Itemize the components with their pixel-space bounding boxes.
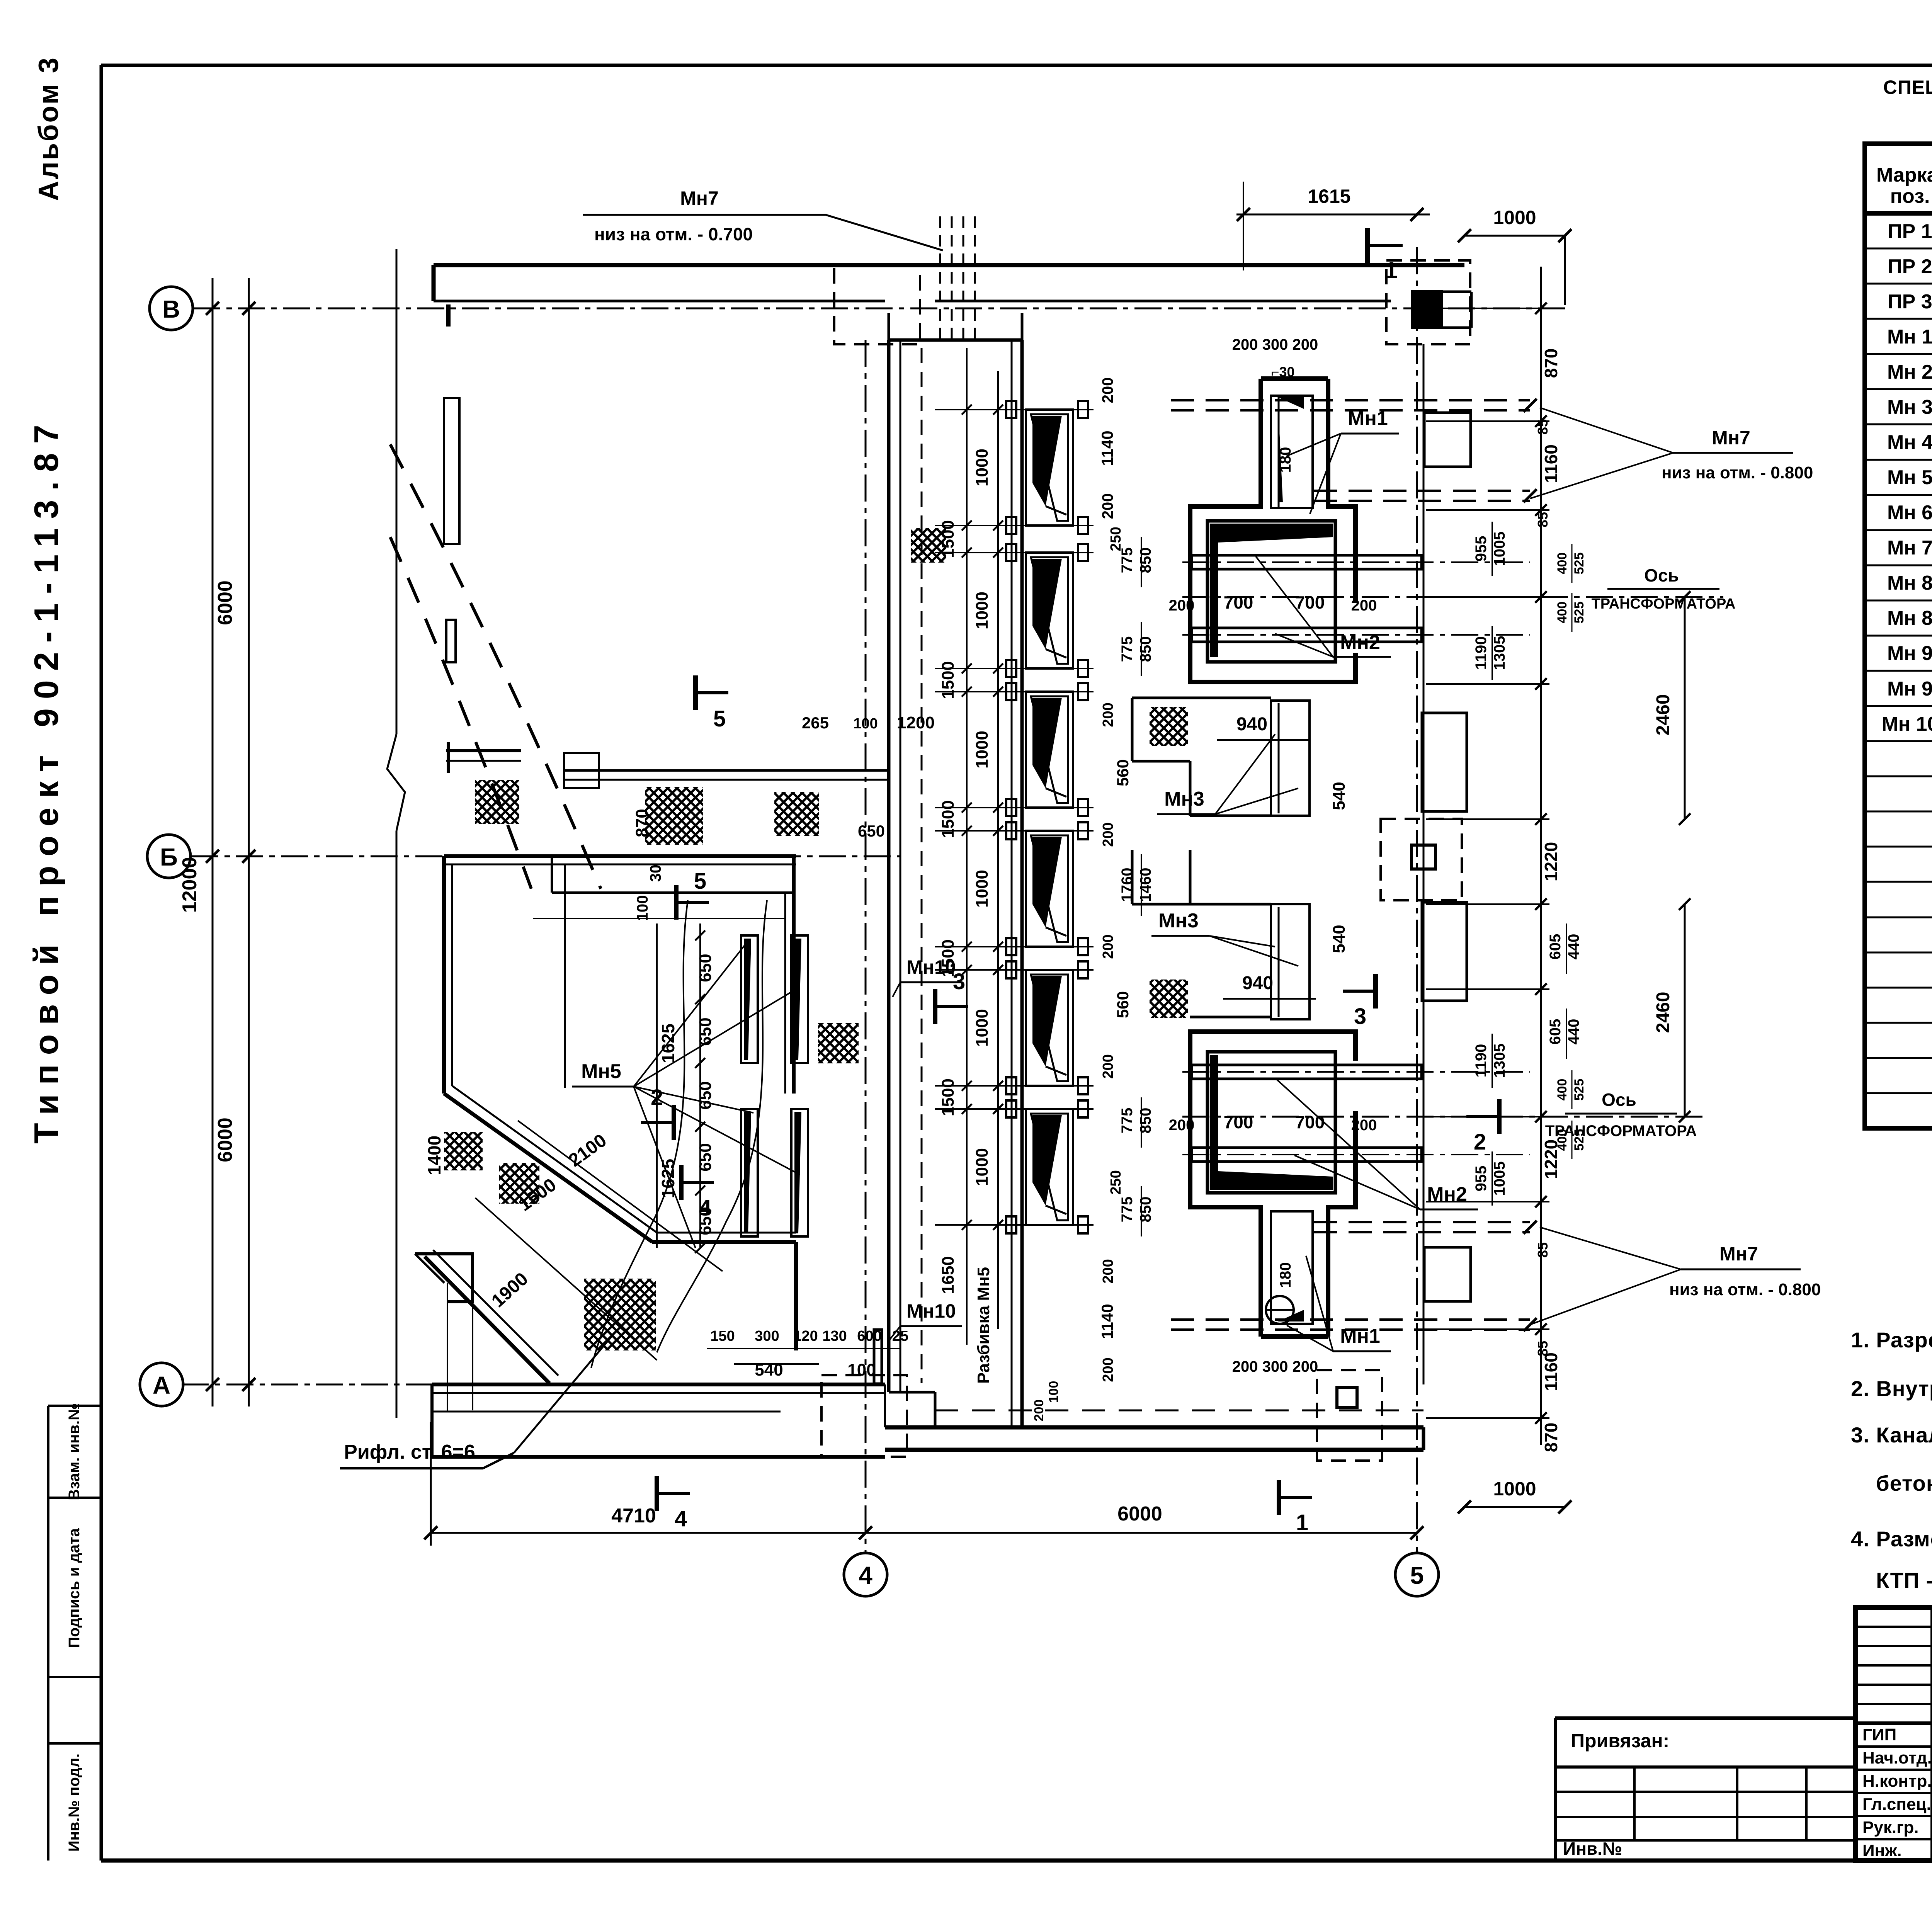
svg-text:955: 955 xyxy=(1473,536,1490,562)
svg-text:5: 5 xyxy=(1410,1561,1424,1589)
axis Б line xyxy=(191,855,900,857)
svg-text:700: 700 xyxy=(1224,1112,1253,1132)
Mn7 pipes right top xyxy=(1171,399,1530,401)
dim 1000 bottom right xyxy=(1464,1506,1565,1508)
svg-text:100: 100 xyxy=(634,895,651,921)
section 2 marks xyxy=(672,1105,676,1140)
axis 4 line xyxy=(865,340,867,1553)
svg-text:850: 850 xyxy=(1137,1197,1154,1223)
axis transformer top xyxy=(1182,596,1723,598)
svg-text:В: В xyxy=(162,295,180,323)
middle rooms xyxy=(1132,697,1271,699)
svg-text:200: 200 xyxy=(1100,702,1116,727)
dashed box middle right xyxy=(1381,819,1462,900)
svg-text:1160: 1160 xyxy=(1541,444,1561,483)
hatch squares xyxy=(475,780,519,824)
svg-text:1500: 1500 xyxy=(939,661,957,699)
svg-text:2460: 2460 xyxy=(1653,694,1673,736)
svg-text:650: 650 xyxy=(696,1143,715,1171)
svg-text:1000: 1000 xyxy=(973,1148,992,1186)
svg-text:Н.контр.: Н.контр. xyxy=(1862,1772,1932,1791)
svg-text:650: 650 xyxy=(696,1081,715,1109)
svg-text:2460: 2460 xyxy=(1653,992,1673,1033)
svg-text:700: 700 xyxy=(1295,1112,1325,1132)
svg-text:940: 940 xyxy=(1242,973,1273,993)
svg-text:1140: 1140 xyxy=(1098,1304,1116,1339)
svg-text:440: 440 xyxy=(1565,1019,1582,1045)
svg-text:6000: 6000 xyxy=(214,580,236,625)
svg-text:2: 2 xyxy=(651,1085,663,1110)
svg-text:265: 265 xyxy=(802,714,829,732)
svg-text:Мн 4: Мн 4 xyxy=(1887,431,1932,454)
svg-text:870: 870 xyxy=(1541,1423,1561,1452)
svg-text:4: 4 xyxy=(859,1561,872,1589)
svg-text:940: 940 xyxy=(1236,714,1267,735)
svg-text:Мн2: Мн2 xyxy=(1340,631,1380,654)
svg-text:700: 700 xyxy=(1224,592,1253,612)
dashed opening top right xyxy=(1386,260,1470,344)
svg-text:1615: 1615 xyxy=(1308,185,1350,207)
transformer bay bottom xyxy=(1190,1032,1355,1337)
svg-text:120: 120 xyxy=(793,1328,818,1344)
svg-text:низ на отм. - 0.800: низ на отм. - 0.800 xyxy=(1662,463,1813,482)
svg-text:200: 200 xyxy=(1032,1400,1046,1422)
svg-text:1500: 1500 xyxy=(939,800,957,838)
left room dims 650 xyxy=(699,923,701,1248)
svg-text:130: 130 xyxy=(822,1328,847,1344)
svg-text:540: 540 xyxy=(1330,782,1349,810)
wall piece near corridor xyxy=(564,753,599,788)
svg-text:Мн 9: Мн 9 xyxy=(1887,678,1932,700)
svg-text:1. Разрезы 1-1 ÷ 5-5 см. лис: 1. Разрезы 1-1 ÷ 5-5 см. лист. xyxy=(1851,1328,1932,1352)
svg-text:Инв.№ подл.: Инв.№ подл. xyxy=(66,1753,83,1852)
svg-text:ПР 3: ПР 3 xyxy=(1888,291,1932,313)
svg-text:Типовой проект 902-1-113.87: Типовой проект 902-1-113.87 xyxy=(27,415,65,1144)
axis circle 4 xyxy=(844,1553,887,1596)
section 3 marks xyxy=(933,989,937,1024)
floor break wavy lines xyxy=(591,900,688,1368)
svg-text:Ось: Ось xyxy=(1602,1090,1636,1110)
svg-text:Инв.№: Инв.№ xyxy=(1563,1838,1622,1859)
svg-text:180: 180 xyxy=(1277,1262,1294,1288)
svg-text:200: 200 xyxy=(1100,1259,1116,1283)
svg-text:1400: 1400 xyxy=(424,1136,444,1175)
svg-text:Марка,: Марка, xyxy=(1876,164,1932,186)
svg-text:1000: 1000 xyxy=(973,1009,992,1047)
svg-text:4. Размеы и веса, указанные: 4. Размеы и веса, указанные дробью, отно… xyxy=(1851,1527,1932,1551)
svg-text:1005: 1005 xyxy=(1491,1162,1508,1196)
svg-text:низ на отм. - 0.700: низ на отм. - 0.700 xyxy=(594,224,753,244)
svg-text:1220: 1220 xyxy=(1541,842,1561,881)
section 1 bottom xyxy=(1277,1480,1281,1515)
step detail bottom corridor xyxy=(874,1330,882,1384)
svg-text:бетона – 18,6 м³ .: бетона – 18,6 м³ . xyxy=(1876,1471,1932,1495)
axis circle В xyxy=(150,287,193,330)
svg-text:100: 100 xyxy=(1046,1381,1061,1403)
svg-text:⌐30: ⌐30 xyxy=(1271,364,1294,380)
Mn7 pipes top xyxy=(939,216,941,345)
svg-text:6000: 6000 xyxy=(1117,1503,1162,1525)
svg-text:Мн 1: Мн 1 xyxy=(1887,326,1932,348)
svg-text:Мн 5: Мн 5 xyxy=(1887,466,1932,489)
building left edge xyxy=(396,249,398,734)
svg-text:525: 525 xyxy=(1572,553,1587,575)
svg-text:200: 200 xyxy=(1169,597,1195,614)
svg-text:1140: 1140 xyxy=(1098,430,1116,466)
svg-text:1: 1 xyxy=(1296,1510,1308,1535)
axis 5 line xyxy=(1416,247,1418,1553)
svg-text:85: 85 xyxy=(1535,419,1551,435)
svg-text:5: 5 xyxy=(713,706,726,731)
svg-text:400: 400 xyxy=(1555,1129,1570,1151)
svg-text:Мн 10: Мн 10 xyxy=(1881,713,1932,735)
svg-text:525: 525 xyxy=(1572,602,1587,624)
svg-text:1190: 1190 xyxy=(1473,1044,1490,1078)
svg-text:5: 5 xyxy=(694,869,706,894)
svg-text:400: 400 xyxy=(1555,602,1570,624)
svg-text:низ на отм. - 0.800: низ на отм. - 0.800 xyxy=(1669,1280,1821,1299)
transformer bay top xyxy=(1190,379,1355,682)
axis circle 5 xyxy=(1395,1553,1439,1596)
svg-text:Альбом 3: Альбом 3 xyxy=(33,56,64,201)
title block xyxy=(1855,1607,1932,1861)
svg-text:30: 30 xyxy=(647,865,664,882)
corridor channels xyxy=(1026,410,1073,526)
svg-text:1650: 1650 xyxy=(939,1256,957,1294)
dim 2460 bottom xyxy=(1684,904,1686,1117)
svg-text:Рук.гр.: Рук.гр. xyxy=(1862,1818,1919,1837)
svg-text:180: 180 xyxy=(1277,447,1294,473)
svg-text:440: 440 xyxy=(1565,934,1582,960)
svg-text:1760: 1760 xyxy=(1119,868,1136,902)
svg-text:1500: 1500 xyxy=(939,1078,957,1116)
svg-text:Гл.спец.: Гл.спец. xyxy=(1862,1795,1931,1814)
transformer rails top bay xyxy=(1192,555,1422,569)
bottom wall xyxy=(432,1383,885,1386)
svg-text:4710: 4710 xyxy=(611,1505,656,1527)
svg-text:3: 3 xyxy=(1354,1004,1366,1029)
svg-text:Привязан:: Привязан: xyxy=(1571,1730,1669,1752)
svg-text:1000: 1000 xyxy=(1493,1478,1536,1500)
transformer rails bottom bay xyxy=(1192,1065,1422,1079)
bottom dim line xyxy=(431,1532,1417,1534)
svg-text:775: 775 xyxy=(1119,1108,1136,1134)
privyazan block xyxy=(1555,1716,1855,1720)
svg-text:1200: 1200 xyxy=(897,713,935,732)
svg-text:400: 400 xyxy=(1555,1079,1570,1101)
svg-text:А: А xyxy=(153,1371,170,1399)
extension verticals bottom left xyxy=(447,1283,448,1412)
right dim chain xyxy=(1540,267,1542,1445)
svg-text:4: 4 xyxy=(675,1506,687,1531)
svg-text:200: 200 xyxy=(1100,934,1116,959)
right building edge xyxy=(1423,344,1425,1384)
svg-text:Мн 8: Мн 8 xyxy=(1887,607,1932,629)
svg-text:250: 250 xyxy=(1108,527,1124,551)
chamfer walls xyxy=(444,1094,652,1242)
svg-text:ГИП: ГИП xyxy=(1862,1725,1896,1744)
axis circle Б xyxy=(147,835,190,878)
svg-text:650: 650 xyxy=(858,822,885,840)
dim 1615 xyxy=(1236,214,1430,216)
svg-text:Взам. инв.№: Взам. инв.№ xyxy=(66,1403,83,1500)
svg-text:СПЕЦИФИКАЦИЯ К СХЕМАМ РАСПО: СПЕЦИФИКАЦИЯ К СХЕМАМ РАСПОЛОЖЕНИЯ КАНАЛ… xyxy=(1883,77,1932,98)
svg-text:Мн 2: Мн 2 xyxy=(1887,361,1932,383)
svg-text:650: 650 xyxy=(696,954,715,982)
svg-text:Мн 9: Мн 9 xyxy=(1887,642,1932,665)
svg-text:Мн7: Мн7 xyxy=(1712,427,1750,449)
left room walls xyxy=(444,854,796,858)
svg-text:Мн10: Мн10 xyxy=(906,956,956,978)
svg-text:1460: 1460 xyxy=(1137,868,1154,902)
svg-text:200 300 200: 200 300 200 xyxy=(1232,336,1318,353)
svg-text:650: 650 xyxy=(696,1017,715,1046)
svg-text:1190: 1190 xyxy=(1473,636,1490,670)
svg-text:870: 870 xyxy=(1541,349,1561,378)
svg-text:Б: Б xyxy=(160,843,178,871)
svg-text:Мн3: Мн3 xyxy=(1164,788,1204,810)
Mn5 rails xyxy=(741,935,758,1063)
corridor dim chain 1500/1000 xyxy=(966,348,968,1345)
svg-text:400: 400 xyxy=(1555,553,1570,575)
svg-text:955: 955 xyxy=(1473,1166,1490,1192)
axis A line xyxy=(182,1384,869,1386)
room partition line xyxy=(564,864,566,1088)
svg-text:150: 150 xyxy=(710,1328,735,1344)
pipe hole circle xyxy=(1266,1296,1294,1324)
svg-text:Инж.: Инж. xyxy=(1862,1841,1902,1860)
dashed opening bottom right xyxy=(1317,1370,1382,1461)
pier 4 xyxy=(1424,1247,1471,1301)
top wall xyxy=(434,263,1464,267)
svg-text:ПР 2: ПР 2 xyxy=(1888,255,1932,278)
svg-text:1005: 1005 xyxy=(1491,532,1508,566)
svg-text:Мн10: Мн10 xyxy=(906,1300,956,1322)
bottom dims 540/100 xyxy=(707,1348,900,1349)
svg-text:600: 600 xyxy=(857,1328,881,1344)
svg-text:Мн3: Мн3 xyxy=(1158,910,1199,932)
svg-text:1: 1 xyxy=(1384,257,1397,283)
svg-text:525: 525 xyxy=(1572,1129,1587,1151)
svg-text:560: 560 xyxy=(1114,759,1132,786)
section mark 1 top xyxy=(1365,228,1370,263)
svg-text:3. Каналы и столбики выполн: 3. Каналы и столбики выполнить из бетона… xyxy=(1851,1423,1932,1447)
svg-text:200 300 200: 200 300 200 xyxy=(1232,1358,1318,1375)
svg-text:200: 200 xyxy=(1100,1357,1116,1382)
svg-text:Мн5: Мн5 xyxy=(581,1060,621,1083)
svg-text:525: 525 xyxy=(1572,1079,1587,1101)
svg-text:поз.: поз. xyxy=(1890,185,1930,207)
svg-text:200: 200 xyxy=(1351,597,1377,614)
svg-text:560: 560 xyxy=(1114,991,1132,1018)
section 4 marks xyxy=(679,1165,684,1200)
svg-text:200: 200 xyxy=(1099,378,1116,403)
svg-text:2. Внутренние поверхности ма: 2. Внутренние поверхности маслоприемнико… xyxy=(1851,1376,1932,1401)
svg-text:1305: 1305 xyxy=(1491,1044,1508,1078)
svg-text:200: 200 xyxy=(1351,1117,1377,1134)
axis B line xyxy=(193,308,1569,310)
svg-text:1000: 1000 xyxy=(973,449,992,486)
dim 1000 top right xyxy=(1464,235,1565,237)
svg-text:605: 605 xyxy=(1547,1019,1564,1045)
Mn7 pipes right bottom xyxy=(1314,1221,1530,1223)
svg-text:Подпись и дата: Подпись и дата xyxy=(66,1528,83,1648)
pier 3 xyxy=(1422,902,1467,1001)
spec table grid xyxy=(1865,144,1932,1128)
pier 1 xyxy=(1424,413,1471,467)
svg-text:4: 4 xyxy=(699,1195,711,1220)
svg-text:1625: 1625 xyxy=(658,1159,678,1198)
svg-text:Мн 3: Мн 3 xyxy=(1887,396,1932,418)
svg-text:85: 85 xyxy=(1535,1341,1551,1356)
svg-text:ПР 1: ПР 1 xyxy=(1888,220,1932,243)
svg-text:Мн 6: Мн 6 xyxy=(1887,502,1932,524)
svg-text:1160: 1160 xyxy=(1541,1352,1561,1391)
svg-text:Разбивка Мн5: Разбивка Мн5 xyxy=(974,1267,993,1384)
svg-text:700: 700 xyxy=(1295,592,1325,612)
axis transformer bottom xyxy=(1182,1116,1708,1118)
pier 2 xyxy=(1422,713,1467,811)
dashed opening top middle xyxy=(834,265,920,344)
dim 2460 top xyxy=(1684,597,1686,819)
svg-text:ТРАНСФОРМАТОРА: ТРАНСФОРМАТОРА xyxy=(1592,596,1736,612)
dashed arcs xyxy=(390,444,601,889)
svg-text:605: 605 xyxy=(1547,934,1564,960)
svg-text:200: 200 xyxy=(1169,1117,1195,1134)
svg-text:850: 850 xyxy=(1137,1108,1154,1134)
svg-text:1000: 1000 xyxy=(973,592,992,629)
section 5 marks xyxy=(693,675,698,710)
margin boxes xyxy=(48,1405,102,1407)
corner construct bottom left xyxy=(415,1254,473,1302)
svg-text:КТП - 630, в знаменателе – к: КТП - 630, в знаменателе – к КТП - 1000. xyxy=(1876,1568,1932,1592)
left wall stubs xyxy=(444,398,459,544)
svg-text:200: 200 xyxy=(1100,1054,1116,1078)
svg-text:300: 300 xyxy=(755,1328,779,1344)
sheet frame xyxy=(100,65,103,1861)
axis circle А xyxy=(140,1363,183,1406)
svg-text:Мн1: Мн1 xyxy=(1340,1325,1380,1347)
svg-text:Нач.отд.: Нач.отд. xyxy=(1862,1748,1932,1767)
svg-text:Ось: Ось xyxy=(1644,565,1679,585)
svg-text:2: 2 xyxy=(1474,1129,1486,1155)
svg-text:Мн 8: Мн 8 xyxy=(1887,572,1932,594)
svg-text:85: 85 xyxy=(1535,1242,1551,1258)
svg-text:775: 775 xyxy=(1119,636,1136,662)
svg-text:1000: 1000 xyxy=(973,731,992,769)
svg-text:850: 850 xyxy=(1137,548,1154,573)
svg-text:200: 200 xyxy=(1100,822,1116,847)
svg-text:25: 25 xyxy=(892,1328,908,1344)
svg-text:Мн7: Мн7 xyxy=(680,187,719,209)
svg-text:85: 85 xyxy=(1535,512,1551,527)
corridor walls xyxy=(887,340,891,1392)
svg-text:200: 200 xyxy=(1099,493,1116,519)
svg-text:1000: 1000 xyxy=(973,870,992,908)
svg-text:Мн 7: Мн 7 xyxy=(1887,537,1932,559)
svg-text:Рифл. ст. 6=6: Рифл. ст. 6=6 xyxy=(344,1441,475,1463)
svg-text:1000: 1000 xyxy=(1493,207,1536,228)
svg-text:12000: 12000 xyxy=(179,857,201,913)
svg-text:775: 775 xyxy=(1119,1197,1136,1223)
left dim chain xyxy=(212,278,214,1406)
Mn3 channels xyxy=(1271,701,1310,816)
svg-text:6000: 6000 xyxy=(214,1117,236,1162)
svg-text:540: 540 xyxy=(1330,925,1349,953)
svg-text:Мн7: Мн7 xyxy=(1719,1243,1758,1265)
svg-text:100: 100 xyxy=(847,1361,876,1379)
svg-text:1305: 1305 xyxy=(1491,636,1508,670)
svg-text:1625: 1625 xyxy=(658,1024,678,1063)
svg-text:850: 850 xyxy=(1137,636,1154,662)
svg-text:100: 100 xyxy=(853,716,878,732)
svg-text:250: 250 xyxy=(1108,1170,1124,1194)
